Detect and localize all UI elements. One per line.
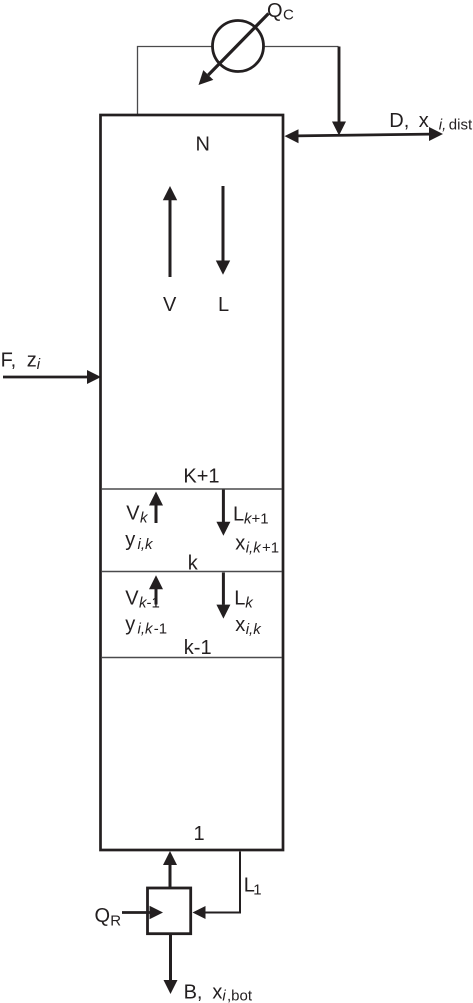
liquid arrow L_k (down from tray k) xyxy=(216,573,230,619)
svg-text:i,k: i,k xyxy=(138,621,155,638)
svg-text:V: V xyxy=(163,294,177,316)
svg-text:V: V xyxy=(125,588,139,610)
heat input arrow Q_R (into reboiler) xyxy=(122,906,163,919)
svg-text:K+1: K+1 xyxy=(183,465,219,487)
label V_k-1 xyxy=(125,588,160,612)
svg-text:+1: +1 xyxy=(252,511,269,528)
condenser (circle) xyxy=(213,21,264,72)
label y_i,k-1 xyxy=(125,614,167,638)
svg-text:1: 1 xyxy=(194,823,205,845)
svg-text:Q: Q xyxy=(95,905,111,927)
column vessel (rectangle) xyxy=(101,115,284,850)
label Q_R xyxy=(95,905,122,930)
svg-text:+1: +1 xyxy=(262,540,279,557)
label L_1 xyxy=(244,874,262,898)
reflux/distillate drop arrow (condenser outlet down) xyxy=(332,47,346,136)
svg-text:k: k xyxy=(188,552,199,574)
reboiler (box) xyxy=(148,888,191,934)
wire: L1 (column bottom to reboiler) xyxy=(193,852,241,920)
svg-text:x: x xyxy=(212,982,222,1003)
svg-text:-1: -1 xyxy=(154,621,167,638)
label x_i,k xyxy=(235,614,262,638)
distillate double-headed arrow D xyxy=(285,127,444,143)
svg-text:B,: B, xyxy=(184,982,203,1003)
tray line k-1 xyxy=(102,657,282,659)
label B, x_i,bot xyxy=(184,982,253,1003)
svg-text:1: 1 xyxy=(253,881,261,898)
label D, x_i,dist xyxy=(389,110,473,134)
svg-text:dist: dist xyxy=(449,117,473,134)
vapor arrow V_k (up into tray K+1) xyxy=(149,492,163,524)
label Q_C xyxy=(267,0,294,24)
liquid arrow L_k+1 (down from tray K+1) xyxy=(216,490,230,536)
wire: condenser loop left (column top to condenser) xyxy=(138,47,213,116)
svg-text:i,: i, xyxy=(439,117,447,134)
feed arrow F xyxy=(3,370,101,384)
tray line K+1 xyxy=(102,488,282,490)
svg-text:k-1: k-1 xyxy=(184,637,212,659)
wire: condenser loop right (condenser to distillate drop) xyxy=(264,46,339,48)
svg-text:y: y xyxy=(125,529,135,551)
label L_k+1 xyxy=(233,504,269,528)
label L_k xyxy=(234,587,254,611)
label V_k xyxy=(126,503,149,527)
svg-text:L: L xyxy=(234,587,245,609)
svg-text:i,k: i,k xyxy=(246,540,263,557)
svg-text:D,: D, xyxy=(389,110,409,132)
svg-text:i,k: i,k xyxy=(246,621,263,638)
label F, z_i xyxy=(1,349,41,373)
svg-text:V: V xyxy=(126,503,140,525)
tray line k xyxy=(102,571,282,573)
vapor arrow V_k-1 (up into tray k) xyxy=(149,575,163,604)
svg-text:F,: F, xyxy=(1,349,17,371)
label x_i,k+1 xyxy=(235,533,279,557)
bottoms arrow B (down from reboiler) xyxy=(164,935,178,994)
svg-text:y: y xyxy=(125,614,135,636)
svg-text:C: C xyxy=(283,7,294,24)
vapor arrow V (up) xyxy=(163,186,177,277)
svg-text:i,k: i,k xyxy=(138,536,155,553)
svg-text:N: N xyxy=(196,134,210,156)
svg-text:L: L xyxy=(233,504,244,526)
svg-text:-1: -1 xyxy=(147,595,160,612)
svg-text:x: x xyxy=(419,110,429,132)
liquid arrow L (down) xyxy=(216,186,230,275)
svg-text:Q: Q xyxy=(267,0,283,22)
svg-text:R: R xyxy=(110,912,121,929)
svg-text:,bot: ,bot xyxy=(227,988,253,1003)
svg-text:x: x xyxy=(235,533,245,555)
svg-text:x: x xyxy=(235,614,245,636)
condenser duty arrow Q_C (diagonal through circle) xyxy=(199,14,269,86)
boilup arrow (reboiler to column bottom) xyxy=(163,851,177,888)
label y_i,k xyxy=(125,529,154,553)
svg-text:L: L xyxy=(218,294,229,316)
svg-text:z: z xyxy=(27,349,37,371)
